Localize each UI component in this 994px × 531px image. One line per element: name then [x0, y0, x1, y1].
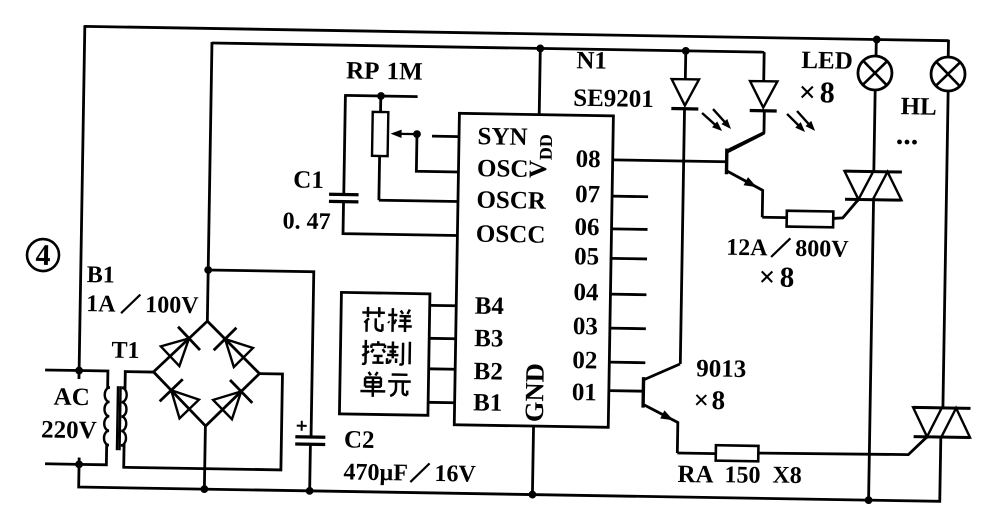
svg-text:02: 02: [572, 347, 597, 374]
transformer T1 secondary lead bottom: [121, 371, 283, 470]
wire: VDD rail (top second rail): [212, 43, 764, 52]
node: AC bottom terminal: [75, 460, 83, 468]
svg-text:01: 01: [572, 379, 597, 406]
transformer T1 core: [117, 386, 118, 450]
node: junction rail/triac1: [865, 496, 873, 504]
svg-text:9013: 9013: [696, 355, 746, 383]
label hanzi yang: [388, 308, 412, 332]
wire: wiper to OSC: [416, 133, 459, 172]
node: junction RP wiper: [413, 130, 421, 138]
wire: pin 06 stub: [612, 227, 648, 230]
svg-text:100V: 100V: [145, 292, 199, 319]
svg-text:T1: T1: [111, 338, 139, 364]
lamp HL1: [858, 56, 893, 91]
potentiometer RP bottom lead: [377, 156, 381, 200]
transformer T1 primary winding: [104, 387, 110, 445]
label hanzi dan: [360, 372, 385, 397]
node: junction rail/IC GND: [528, 491, 536, 499]
diode bridge bottom-left: [171, 390, 199, 418]
lamp HL2: [931, 57, 966, 92]
wire: R1 to triac1 gate: [833, 199, 858, 219]
wire: lamp HL2 column to triac2: [943, 91, 948, 408]
svg-text:1A: 1A: [86, 291, 116, 317]
LED D1 emission arrows: [702, 113, 717, 126]
wire: top AC rail (lamps supply): [84, 26, 948, 40]
wire: triac1 to ground rail: [869, 200, 874, 500]
svg-text:05: 05: [574, 243, 599, 270]
wire: AC source bottom tail: [78, 458, 81, 465]
capacitor C2 polarity +: [297, 425, 307, 427]
wire: pin 02 stub: [609, 361, 645, 364]
wire: branch to C2 top: [205, 270, 313, 437]
node: junction bridge+ branch: [204, 266, 212, 274]
wire: AC bottom stub: [45, 462, 79, 465]
svg-text:RP: RP: [346, 57, 380, 85]
capacitor C1 top lead: [344, 95, 346, 194]
svg-text:RA: RA: [677, 461, 714, 489]
svg-text:0. 47: 0. 47: [282, 208, 330, 235]
svg-text:C1: C1: [293, 167, 324, 195]
svg-text:06: 06: [574, 214, 599, 241]
resistor R1 body: [787, 211, 834, 228]
node: AC top terminal: [75, 367, 83, 375]
wire: OSCR: [379, 200, 458, 201]
wire: SYN stub: [432, 135, 459, 138]
wire: left vertical rail (AC L): [79, 25, 85, 379]
svg-text:B3: B3: [474, 325, 504, 352]
svg-text:GND: GND: [519, 363, 550, 422]
capacitor C2 bottom lead: [308, 444, 312, 491]
triac VS1 (upper): [845, 170, 902, 174]
svg-text:×: ×: [758, 261, 775, 293]
svg-text:C2: C2: [344, 426, 375, 454]
transformer T1 primary lead top: [79, 371, 110, 388]
label ellipsis: [897, 139, 902, 144]
svg-text:150: 150: [724, 462, 760, 489]
wire: pin 08 to Q1 base: [613, 160, 727, 162]
bridge B1 diamond: [153, 320, 261, 427]
svg-text:AC: AC: [53, 384, 90, 412]
wire: B1 link: [428, 401, 454, 404]
wire: Q1 emitter to R1: [762, 216, 786, 219]
node: junction VDD rail / IC VDD: [536, 44, 544, 52]
svg-text:B4: B4: [475, 293, 505, 320]
diode bridge top-left: [161, 338, 190, 366]
svg-text:×: ×: [693, 385, 709, 415]
wire: lamp1 column to triac1: [874, 90, 875, 172]
svg-text:220V: 220V: [41, 416, 97, 444]
label hanzi zhi: [387, 341, 410, 364]
svg-text:SYN: SYN: [477, 123, 527, 151]
transistor Q1 collector: [727, 132, 765, 152]
svg-text:N1: N1: [576, 47, 607, 75]
svg-text:16V: 16V: [434, 461, 476, 488]
svg-text:03: 03: [573, 313, 598, 340]
wire: pin 05 stub: [611, 257, 647, 260]
wire: LED2 cathode to Q1 collector: [729, 110, 764, 150]
label hanzi hua: [362, 307, 385, 332]
label hanzi kong: [362, 340, 385, 364]
wire: AC top stub: [45, 369, 79, 372]
capacitor C2 plates: [295, 435, 325, 439]
LED D2 emission arrows: [787, 114, 800, 127]
wire: lamp HL1 stub: [875, 40, 878, 57]
transistor Q2 collector: [644, 363, 680, 380]
wire: lamp HL2 stub: [947, 40, 950, 58]
transformer T1 primary lead bottom: [79, 445, 109, 465]
wire: pin 03 stub: [610, 327, 646, 330]
label hanzi yuan: [388, 374, 411, 396]
svg-text:OSCR: OSCR: [476, 187, 547, 215]
node: junction rail/C2: [306, 487, 314, 495]
resistor RA body: [716, 445, 759, 461]
transistor Q2 emitter: [642, 404, 678, 453]
wire: VDD drop to IC: [539, 48, 540, 114]
figure number circled 4: [27, 239, 60, 272]
svg-text:1M: 1M: [386, 58, 423, 86]
svg-text:800V: 800V: [795, 236, 849, 263]
svg-text:4: 4: [35, 239, 51, 272]
node: junction VDD rail / LED1 anode: [682, 47, 690, 55]
svg-text:07: 07: [575, 181, 600, 208]
wire: IC GND drop: [532, 426, 533, 494]
svg-text:8: 8: [711, 385, 725, 415]
svg-text:B2: B2: [473, 358, 503, 385]
wire: Q2 emitter to RA: [677, 452, 715, 455]
transistor Q1 base bar: [725, 149, 729, 175]
wire: LED1 anode drop: [684, 51, 687, 79]
potentiometer RP body: [372, 112, 388, 156]
svg-text:LED: LED: [801, 47, 853, 75]
svg-text:HL: HL: [900, 93, 937, 121]
transistor Q2 base bar: [641, 377, 645, 407]
svg-text:×: ×: [799, 76, 817, 109]
potentiometer RP wiper arrow: [394, 133, 417, 136]
svg-text:OSC: OSC: [477, 155, 529, 183]
capacitor C1 plates: [329, 193, 358, 197]
capacitor C1 bottom lead / OSCC wire: [343, 202, 458, 236]
wire: VDD rail left riser to bridge + output: [207, 42, 212, 321]
node: junction RP top: [377, 92, 385, 100]
wire: LED1 cathode column: [680, 109, 684, 364]
diode bridge top-right: [225, 339, 254, 367]
svg-text:8: 8: [779, 262, 794, 294]
svg-text:470µF: 470µF: [343, 459, 408, 486]
svg-text:8: 8: [820, 76, 836, 109]
node: junction rail/bridge-: [200, 485, 208, 493]
transformer T1 secondary lead top: [122, 372, 154, 389]
diode bridge bottom-right: [213, 391, 241, 419]
svg-text:OSCC: OSCC: [476, 221, 546, 249]
svg-text:X8: X8: [772, 463, 802, 489]
svg-text:B1: B1: [473, 389, 503, 416]
wire: B4 link: [430, 304, 456, 307]
wire: LED2 anode drop: [762, 52, 765, 81]
wire: B2 link: [429, 367, 455, 370]
wire: RP top node: [344, 95, 417, 96]
svg-text:12A: 12A: [726, 235, 768, 262]
node: junction rail/lamp HL1: [873, 36, 881, 44]
wire: bottom ground rail: [79, 423, 941, 502]
triac VS2 (lower): [913, 406, 970, 410]
block: pattern control unit (hua yang kong zhi dan yuan): [339, 292, 430, 415]
LED D1 (LED x8 left): [671, 79, 699, 106]
svg-text:SE9201: SE9201: [573, 85, 654, 113]
wire: RA to triac2 gate: [758, 434, 927, 456]
transistor Q1 emitter: [726, 171, 763, 217]
svg-text:04: 04: [573, 279, 599, 306]
LED D2 (LED x8 right): [750, 81, 778, 108]
wire: B3 link: [429, 337, 455, 340]
wire: pin 04 stub: [610, 293, 646, 296]
potentiometer RP top lead: [379, 95, 382, 112]
IC N1 SE9201 body: [454, 113, 613, 427]
wire: pin 07 stub: [612, 195, 648, 198]
wire: bridge - output to ground rail: [204, 426, 205, 489]
wire: pin 01 to Q2 base: [609, 389, 643, 392]
svg-text:08: 08: [575, 146, 600, 173]
svg-text:B1: B1: [86, 262, 114, 288]
transformer T1 secondary winding: [121, 388, 127, 446]
